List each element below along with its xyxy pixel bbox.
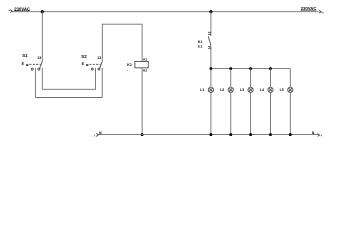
wire J2 down to K1 contact [210,12,212,36]
underline N right [312,133,315,135]
wire from J1 down to S1 [41,12,43,62]
svg-text:S1: S1 [22,53,28,58]
wire inner link S1-S2 [42,68,95,90]
node junction J1 at S1 branch [41,10,44,13]
svg-text:E: E [22,62,25,66]
lamp L2 [220,69,233,135]
svg-text:A2: A2 [143,68,147,72]
switch S1 contact circle right [38,68,40,70]
node junction lamp bus 2 [229,67,232,70]
svg-text:13: 13 [208,32,212,36]
svg-text:L2: L2 [220,88,224,92]
wire outer link S1-S2 [35,68,102,98]
node left N arrow [94,133,99,136]
svg-text:13: 13 [37,56,41,60]
node junction lamp bus 3 [249,67,252,70]
node junction lamp5-N [289,133,292,136]
svg-text:K1: K1 [198,40,203,44]
svg-text:L3: L3 [240,88,244,92]
wire K1 contact down to lamp bus [210,45,212,68]
switch S1 actuator E [22,62,41,66]
switch S2 lever [100,61,103,68]
wire N bottom bus [99,134,319,136]
svg-text:E: E [82,62,85,66]
switch S2 contact circle left [91,68,93,70]
node junction lamp2-N [229,133,232,136]
node left 230VAC arrow [9,10,13,13]
wire L top bus 230VAC [12,11,318,13]
node right 230VAC arrow [319,10,324,13]
node junction J2 at K1 contact branch [209,10,212,13]
svg-text:L5: L5 [280,88,284,92]
svg-text:L1: L1 [200,88,204,92]
node junction K1-N [141,133,144,136]
wire K1 coil A2 down to N [141,68,143,135]
underline 230VAC left [14,10,30,12]
wire lamp top bus [211,68,290,70]
switch S2 contact circle right [98,68,100,70]
switch S1 lever [40,61,43,68]
node right N arrow [317,134,322,137]
node junction lamp bus 4 [269,67,272,70]
switch S1 contact circle left [31,68,33,70]
wire S1 left terminal down [34,68,36,98]
contact K1 lever [208,36,211,45]
wire S2 common up and over to K1 coil [102,24,142,61]
svg-text:K1: K1 [127,63,132,67]
underline N left [99,133,102,135]
node junction lamp1-N [209,133,212,136]
node junction lamp3-N [249,133,252,136]
switch S2 actuator E [82,62,101,66]
svg-text:13: 13 [97,56,101,60]
relay coil K1 box [135,62,148,68]
lamp L4 [260,69,273,135]
node junction lamp4-N [269,133,272,136]
lamp L1 [200,69,213,135]
wire S1 right terminal down [41,68,43,90]
svg-text:A1: A1 [143,58,147,62]
lamp L5 [280,69,293,135]
speck under K1 label [126,69,129,72]
underline 230VAC right [301,10,317,12]
svg-text:L4: L4 [260,88,264,92]
node junction lamp bus 1 [209,67,212,70]
svg-text:S2: S2 [81,54,87,59]
svg-text:6.1: 6.1 [198,45,203,49]
lamp L3 [240,69,253,135]
